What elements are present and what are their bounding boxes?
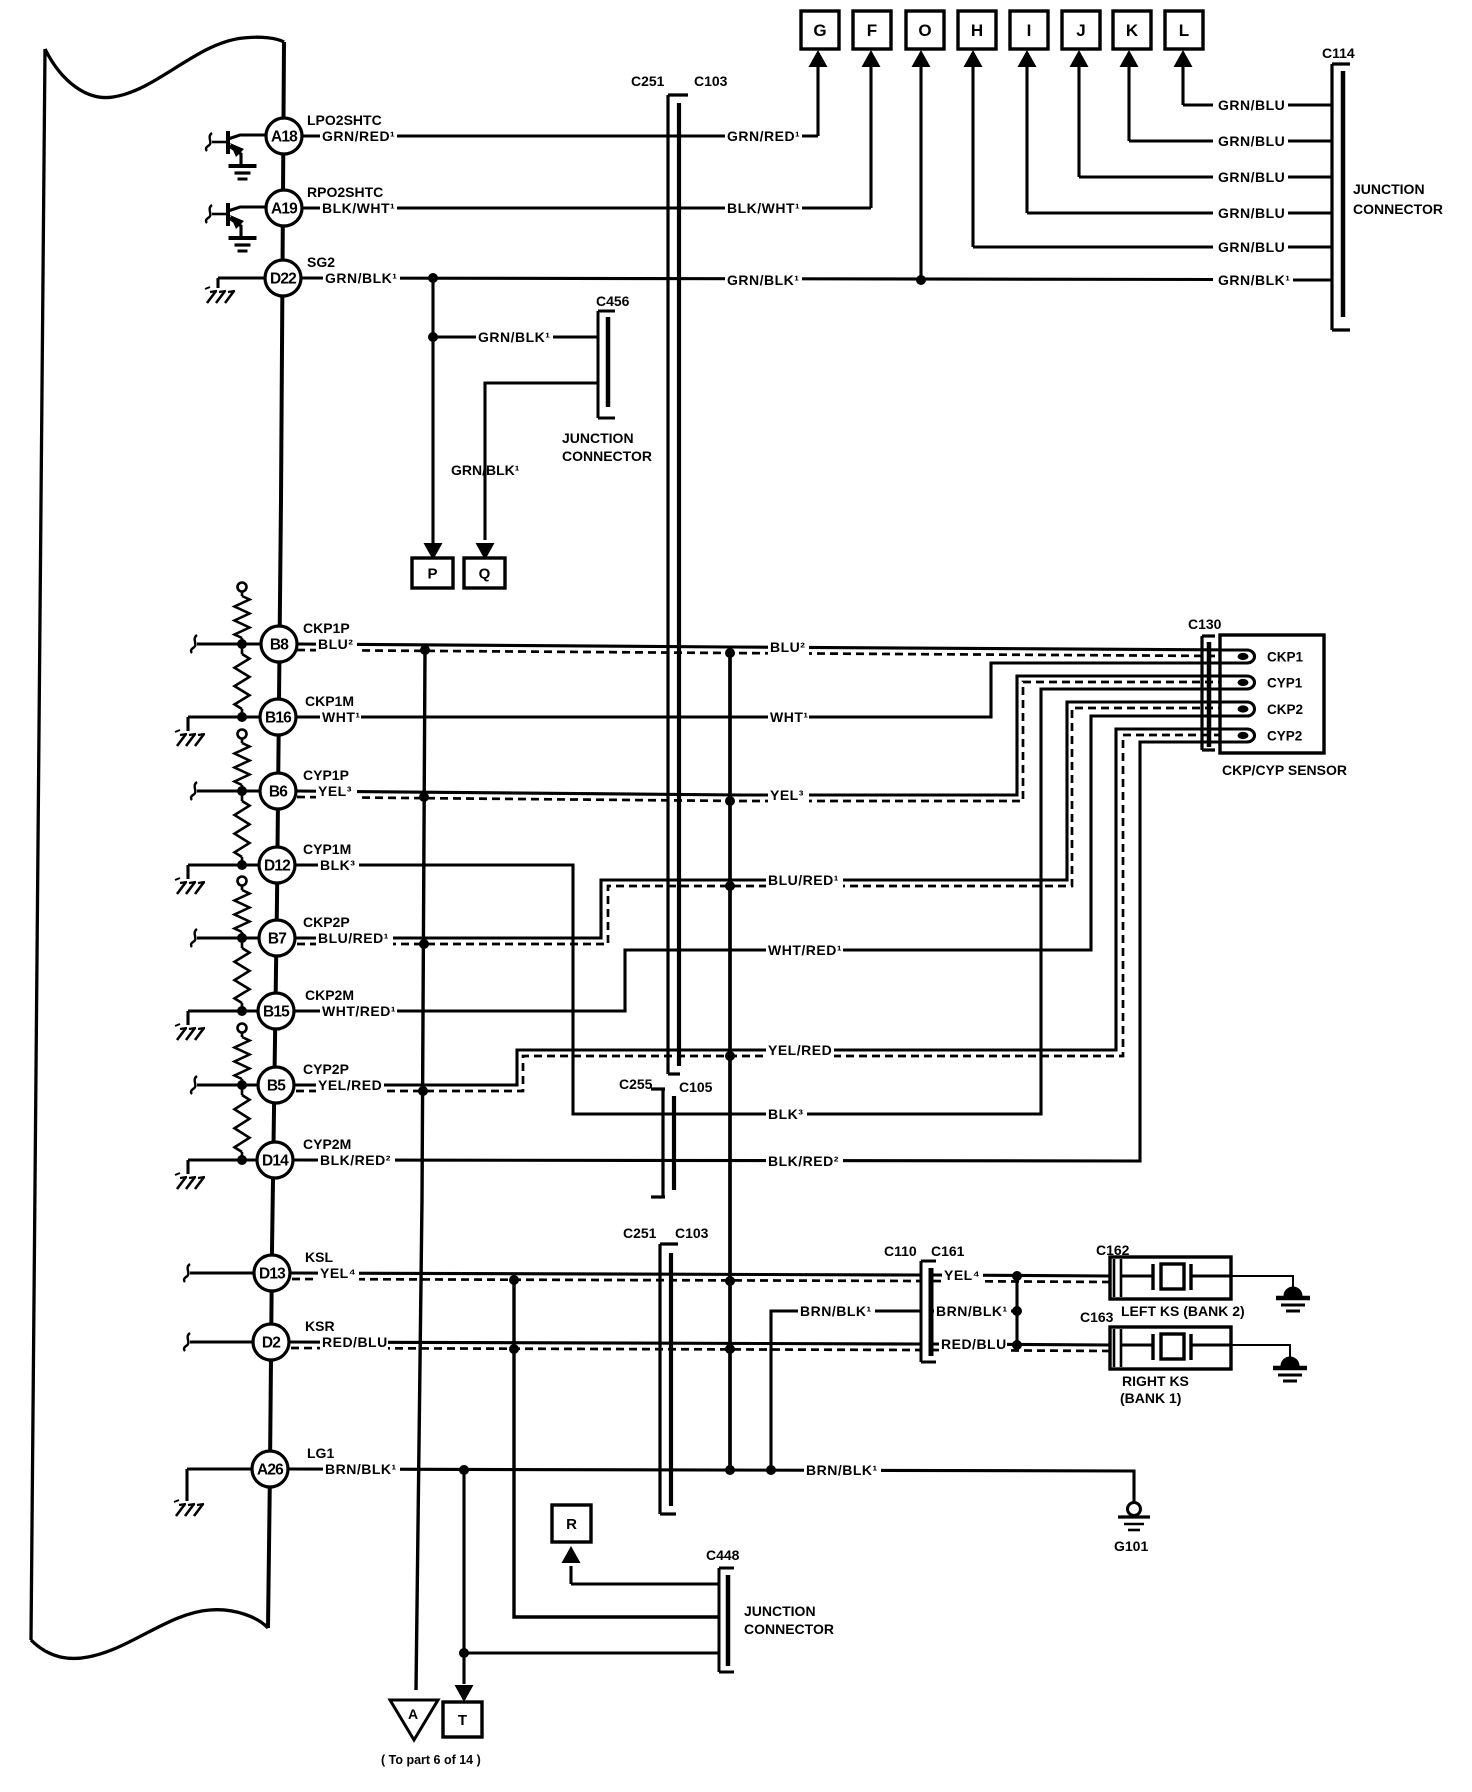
junction node shield BLU2 at left drain — [420, 645, 430, 655]
label YEL4 — [942, 1267, 983, 1283]
driver transistor at pin A19 — [206, 203, 266, 236]
svg-text:WHT/RED¹: WHT/RED¹ — [322, 1003, 396, 1019]
svg-text:CYP1M: CYP1M — [303, 841, 351, 857]
text CKP/CYP sensor — [1222, 762, 1347, 778]
svg-text:C103: C103 — [694, 73, 728, 89]
PCM pin D12 — [259, 847, 295, 883]
label BLU2 — [316, 636, 357, 652]
svg-text:CYP2M: CYP2M — [303, 1136, 351, 1152]
arrow into flag F — [862, 50, 881, 67]
label YEL4 — [318, 1265, 359, 1281]
svg-text:D2: D2 — [262, 1335, 280, 1352]
svg-text:CKP/CYP SENSOR: CKP/CYP SENSOR — [1222, 762, 1347, 778]
connector C103 lower half — [669, 1253, 673, 1506]
label BLK3 — [318, 857, 359, 873]
label C456 — [596, 293, 630, 309]
arrow into R — [562, 1546, 581, 1563]
connector flag box T — [443, 1702, 482, 1737]
junction connector C114 — [1332, 64, 1350, 330]
pull-up resistor above B6 — [235, 730, 250, 792]
junction node at resistor / D12 wire — [237, 860, 247, 870]
svg-text:BLU²: BLU² — [318, 636, 353, 652]
left knock sensor C162 — [1110, 1257, 1231, 1299]
svg-text:H: H — [971, 21, 983, 40]
svg-text:GRN/BLU: GRN/BLU — [1218, 97, 1285, 113]
label BRN/BLK1 — [323, 1461, 400, 1477]
PCM internal bus wire — [268, 42, 284, 1628]
svg-text:JUNCTION: JUNCTION — [1353, 181, 1425, 197]
wire branch LG1 to flag T — [462, 1470, 465, 1653]
arrow into Q — [476, 543, 495, 560]
sensor terminal CKP1 — [1220, 650, 1304, 665]
PCM pin B8 — [261, 626, 297, 662]
svg-text:GRN/BLK¹: GRN/BLK¹ — [478, 329, 550, 345]
svg-text:F: F — [867, 21, 877, 40]
svg-text:G101: G101 — [1114, 1538, 1148, 1554]
svg-text:GRN/BLK¹: GRN/BLK¹ — [1218, 272, 1290, 288]
shield drain wire to flag A — [416, 650, 425, 1690]
label YEL3 — [768, 787, 809, 803]
arrow into flag I — [1018, 50, 1037, 67]
junction node LG1 at T branch — [459, 1465, 469, 1475]
wire stub left of D13 — [184, 1264, 254, 1282]
riser wire to flag F — [869, 66, 872, 208]
svg-text:YEL³: YEL³ — [318, 783, 352, 799]
label RED/BLU — [939, 1336, 1007, 1352]
junction node T branch to C448 — [459, 1648, 469, 1658]
label GRN/BLK1 — [725, 272, 802, 288]
bias resistor between B8 and B16 — [235, 644, 250, 717]
label BRN/BLK1 — [934, 1303, 1011, 1319]
wire WHT/RED1 CKP2M row — [294, 716, 1247, 1011]
earth ground below transistor A19 — [229, 238, 257, 251]
labels C251 C103 upper — [631, 73, 728, 89]
PCM pin B7 — [259, 920, 295, 956]
wire BLK/RED2 CYP2M row — [293, 742, 1247, 1161]
label C448 — [706, 1547, 740, 1563]
label GRN/BLU — [1216, 97, 1285, 113]
svg-text:CYP2P: CYP2P — [303, 1061, 349, 1077]
junction connector C456 — [598, 311, 615, 418]
shield dash RED/BLU right — [933, 1350, 1110, 1351]
riser wire to flag J — [1077, 66, 1080, 177]
bias resistor between B5 and D14 — [235, 1085, 250, 1160]
junction node shield at center drain — [725, 1051, 735, 1061]
connector C251 lower half — [660, 1244, 678, 1514]
junction node shield at center drain — [725, 1276, 735, 1286]
svg-text:KSL: KSL — [305, 1249, 333, 1265]
wire R flag to junction connector C448 — [571, 1566, 719, 1584]
wire GRN/BLU K to C114 — [1129, 139, 1332, 142]
ground wire left of D14 — [188, 1160, 257, 1174]
svg-text:BLU²: BLU² — [770, 639, 805, 655]
wire GRN/BLK1 from D22 to C114 — [301, 278, 1332, 280]
labels C255 C105 — [619, 1076, 713, 1095]
svg-text:D13: D13 — [259, 1266, 286, 1283]
label BLK/RED2 — [766, 1153, 843, 1169]
wire GRN/BLU I to C114 — [1027, 211, 1332, 214]
svg-text:A26: A26 — [257, 1462, 284, 1479]
pin name label CYP1P — [303, 767, 349, 783]
wire T branch to junction connector C448 — [464, 1651, 719, 1654]
svg-text:D22: D22 — [270, 271, 296, 288]
bias resistor between B6 and D12 — [235, 791, 250, 865]
pin name label RPO2SHTC — [307, 184, 383, 200]
svg-text:B15: B15 — [263, 1004, 290, 1021]
chassis ground B15 — [175, 1024, 205, 1040]
shield dash BLU/RED1 — [297, 708, 1220, 944]
text junction connector C448 — [744, 1603, 834, 1637]
ground wire left of D12 — [188, 865, 259, 879]
labels C251 C103 lower — [623, 1225, 709, 1241]
svg-text:LPO2SHTC: LPO2SHTC — [307, 112, 382, 128]
junction node KS tie BRN/BLK1 — [1012, 1306, 1022, 1316]
ground wire left of A26 — [187, 1469, 252, 1501]
wire stub left of B8 — [191, 635, 261, 653]
ground wire left of D22 — [218, 278, 265, 288]
label C130 — [1188, 616, 1222, 632]
pin name label CKP2P — [303, 914, 350, 930]
junction node KS tie RED/BLU — [1012, 1340, 1022, 1350]
chassis ground D12 — [175, 878, 205, 894]
PCM pin B15 — [258, 993, 294, 1029]
junction node at C456 branch — [428, 332, 438, 342]
svg-text:C130: C130 — [1188, 616, 1222, 632]
wire BLU/RED1 CKP2P row — [295, 702, 1247, 938]
connector flag box I — [1010, 11, 1048, 49]
svg-text:T: T — [458, 1712, 467, 1729]
svg-text:JUNCTION: JUNCTION — [744, 1603, 816, 1619]
svg-text:CKP1M: CKP1M — [305, 693, 354, 709]
label BLU/RED1 — [316, 930, 393, 946]
svg-text:C103: C103 — [675, 1225, 709, 1241]
connector flag box P — [412, 558, 453, 588]
junction node shield at center drain — [725, 796, 735, 806]
wire YEL3 CYP1P row — [296, 676, 1247, 795]
junction node shield at center drain — [725, 1344, 735, 1354]
pull-up resistor above B8 — [235, 583, 250, 645]
wire BRN/BLK1 branch to C110 — [771, 1311, 920, 1470]
sensor terminal CYP2 — [1220, 729, 1302, 744]
PCM pin B5 — [258, 1067, 294, 1103]
wire WHT1 CKP1M row — [296, 663, 1247, 717]
svg-text:BLK/RED²: BLK/RED² — [320, 1152, 391, 1168]
connector flag box K — [1113, 11, 1151, 49]
label C114 — [1322, 45, 1355, 61]
riser wire to flag K — [1127, 66, 1130, 141]
svg-text:C251: C251 — [623, 1225, 657, 1241]
label WHT1 — [768, 709, 809, 725]
pull-up resistor above B7 — [235, 877, 250, 939]
svg-text:K: K — [1126, 21, 1139, 40]
svg-text:GRN/RED¹: GRN/RED¹ — [322, 128, 395, 144]
svg-text:CKP1: CKP1 — [1267, 650, 1304, 665]
chassis ground A26 — [174, 1500, 204, 1516]
svg-text:(BANK 1): (BANK 1) — [1120, 1390, 1181, 1406]
pin name label CKP2M — [305, 987, 354, 1003]
svg-text:WHT/RED¹: WHT/RED¹ — [768, 942, 842, 958]
svg-text:LG1: LG1 — [307, 1445, 334, 1461]
junction node at resistor / B15 wire — [237, 1006, 247, 1016]
svg-text:CONNECTOR: CONNECTOR — [744, 1621, 834, 1637]
junction node LG1 at C110 branch — [766, 1465, 776, 1475]
svg-text:I: I — [1027, 21, 1032, 40]
svg-text:YEL⁴: YEL⁴ — [320, 1265, 356, 1281]
svg-text:C448: C448 — [706, 1547, 740, 1563]
svg-text:JUNCTION: JUNCTION — [562, 430, 634, 446]
arrow into flag G — [809, 50, 828, 67]
text LEFT KS BANK 2 — [1121, 1303, 1245, 1319]
riser wire to flag O — [919, 66, 922, 280]
wire BLK3 CYP1M row — [295, 689, 1247, 1114]
CKP/CYP sensor body — [1220, 635, 1324, 753]
junction connector C448 — [719, 1568, 734, 1672]
junction node at resistor / B16 wire — [237, 712, 247, 722]
svg-text:YEL³: YEL³ — [770, 787, 804, 803]
svg-text:G: G — [813, 21, 826, 40]
svg-text:J: J — [1076, 21, 1085, 40]
label C163 — [1080, 1309, 1114, 1325]
pull-up resistor above B5 — [235, 1024, 250, 1086]
svg-text:D14: D14 — [262, 1153, 289, 1170]
svg-text:GRN/BLK¹: GRN/BLK¹ — [727, 272, 799, 288]
junction node GRN/BLK1 at O riser — [916, 275, 926, 285]
svg-text:BRN/BLK¹: BRN/BLK¹ — [325, 1461, 397, 1477]
svg-text:GRN/RED¹: GRN/RED¹ — [727, 128, 800, 144]
svg-text:B5: B5 — [267, 1078, 286, 1095]
text junction connector C114 — [1353, 181, 1443, 217]
wire GRN/BLU H to C114 — [973, 245, 1332, 248]
svg-text:CYP1: CYP1 — [1267, 676, 1303, 691]
svg-text:BLK/RED²: BLK/RED² — [768, 1153, 839, 1169]
svg-text:BLU/RED¹: BLU/RED¹ — [318, 930, 389, 946]
connector C251 upper half — [668, 95, 688, 1074]
riser wire to flag H — [971, 66, 974, 247]
svg-text:O: O — [918, 21, 931, 40]
svg-text:GRN/BLU: GRN/BLU — [1218, 169, 1285, 185]
label G101 — [1114, 1538, 1148, 1554]
svg-text:C255: C255 — [619, 1076, 653, 1092]
PCM pin D13 — [254, 1255, 290, 1291]
junction node at resistor / B6 wire — [237, 786, 247, 796]
svg-text:BLK/WHT¹: BLK/WHT¹ — [322, 200, 395, 216]
PCM pin A19 — [266, 190, 302, 226]
riser wire to flag L — [1181, 66, 1184, 105]
connector flag box O — [906, 11, 944, 49]
label BRN/BLK1 — [798, 1303, 875, 1319]
connector C103 upper half — [677, 103, 681, 1066]
arrow into flag J — [1070, 50, 1089, 67]
svg-text:C163: C163 — [1080, 1309, 1114, 1325]
svg-text:BLK³: BLK³ — [320, 857, 355, 873]
svg-text:C456: C456 — [596, 293, 630, 309]
wire YEL/RED CYP2P row — [294, 729, 1247, 1085]
wire YEL4 C161 to left KS — [933, 1275, 1110, 1276]
label BLK/RED2 — [318, 1152, 395, 1168]
junction node KSL shield at drain — [509, 1275, 519, 1285]
label BLU/RED1 — [766, 872, 843, 888]
connector flag box H — [958, 11, 996, 49]
junction node KS tie YEL4 — [1012, 1271, 1022, 1281]
label GRN/BLK1 — [476, 329, 553, 345]
arrow into P — [424, 540, 443, 560]
svg-text:BRN/BLK¹: BRN/BLK¹ — [806, 1462, 878, 1478]
label WHT/RED1 — [766, 942, 843, 958]
svg-text:GRN/BLU: GRN/BLU — [1218, 133, 1285, 149]
PCM pin D2 — [253, 1324, 289, 1360]
label BLK/WHT1 — [725, 200, 802, 216]
svg-text:C110: C110 — [884, 1243, 917, 1259]
pin name label CKP1P — [303, 620, 350, 636]
svg-text:GRN/BLU: GRN/BLU — [1218, 239, 1285, 255]
svg-text:BRN/BLK¹: BRN/BLK¹ — [936, 1303, 1008, 1319]
svg-text:C251: C251 — [631, 73, 665, 89]
text RIGHT KS BANK 1 — [1120, 1373, 1189, 1406]
sensor terminal CKP2 — [1220, 702, 1303, 717]
pin name label LPO2SHTC — [307, 112, 382, 128]
wire BRN/BLK1 C161 stub — [933, 1309, 1017, 1312]
label GRN/BLU — [1216, 169, 1285, 185]
pin name label SG2 — [307, 254, 335, 270]
svg-text:KSR: KSR — [305, 1318, 335, 1334]
shield dash YEL3 — [297, 682, 1220, 801]
label RED/BLU — [320, 1334, 388, 1350]
PCM module outline top wavy edge — [45, 37, 284, 97]
junction node GRN/BLK1 branch at C456 tap — [428, 273, 438, 283]
svg-text:( To part 6 of 14 ): ( To part 6 of 14 ) — [381, 1753, 481, 1767]
junction node shield BLU/RED1 at left drain — [419, 939, 429, 949]
svg-text:YEL⁴: YEL⁴ — [944, 1267, 980, 1283]
connector flag box L — [1165, 11, 1203, 49]
wire BLK/WHT1 from A19 to C103 — [302, 206, 871, 209]
svg-text:SG2: SG2 — [307, 254, 335, 270]
svg-text:C162: C162 — [1096, 1242, 1130, 1258]
connector C130 — [1202, 636, 1215, 750]
wire right KS to ground — [1231, 1345, 1290, 1358]
wire stub left of B7 — [191, 929, 259, 947]
text to part 6 of 14 — [381, 1753, 481, 1767]
svg-text:CYP2: CYP2 — [1267, 729, 1302, 744]
wire GRN/BLU L to C114 — [1183, 103, 1332, 106]
PCM module outline bottom wavy edge — [31, 1610, 268, 1659]
ground wire left of B15 — [188, 1011, 258, 1025]
wire GRN/BLK1 drop to C456 and P — [431, 278, 434, 540]
label YEL/RED — [766, 1042, 834, 1058]
pin name label KSL — [305, 1249, 333, 1265]
bias resistor between B7 and B15 — [235, 938, 250, 1011]
svg-text:C161: C161 — [931, 1243, 965, 1259]
svg-text:CONNECTOR: CONNECTOR — [562, 448, 652, 464]
connector flag box J — [1062, 11, 1100, 49]
sensor terminal CYP1 — [1220, 676, 1303, 691]
PCM module outline left edge — [31, 49, 45, 1640]
svg-text:A18: A18 — [271, 129, 298, 146]
shield dash BLU2 — [297, 650, 1220, 656]
svg-text:RIGHT KS: RIGHT KS — [1122, 1373, 1189, 1389]
svg-text:A: A — [408, 1706, 418, 1722]
pin name label CYP1M — [303, 841, 351, 857]
label YEL/RED — [316, 1077, 384, 1093]
connector C255 — [651, 1089, 665, 1197]
connector flag box F — [853, 11, 891, 49]
knock sensor shield tie wire — [1015, 1276, 1018, 1345]
label BRN/BLK1 — [804, 1462, 881, 1478]
PCM pin A18 — [266, 118, 302, 154]
svg-text:BLK³: BLK³ — [768, 1106, 803, 1122]
svg-text:C105: C105 — [679, 1079, 713, 1095]
shield dash YEL4 — [292, 1279, 920, 1281]
svg-text:P: P — [427, 565, 437, 582]
label GRN/BLU — [1216, 133, 1285, 149]
arrow into flag H — [964, 50, 983, 67]
PCM pin D22 — [265, 260, 301, 296]
svg-text:L: L — [1179, 21, 1189, 40]
junction node center drain at LG1 row — [725, 1465, 735, 1475]
svg-text:YEL/RED: YEL/RED — [768, 1042, 832, 1058]
svg-text:RED/BLU: RED/BLU — [322, 1334, 388, 1350]
svg-text:WHT¹: WHT¹ — [770, 709, 809, 725]
svg-text:B6: B6 — [269, 784, 288, 801]
svg-text:WHT¹: WHT¹ — [322, 709, 361, 725]
flag A to part 6 of 14 — [390, 1700, 438, 1740]
pin name label CKP1M — [305, 693, 354, 709]
label BLK3 — [766, 1106, 807, 1122]
svg-text:BRN/BLK¹: BRN/BLK¹ — [800, 1303, 872, 1319]
junction node shield at center drain — [725, 881, 735, 891]
junction node at resistor / D14 wire — [237, 1155, 247, 1165]
connector flag box Q — [464, 558, 505, 588]
junction node shield YEL3 at left drain — [419, 792, 429, 802]
label GRN/RED1 — [320, 128, 397, 144]
shield dash YEL/RED — [296, 735, 1220, 1091]
svg-text:BLU/RED¹: BLU/RED¹ — [768, 872, 839, 888]
svg-text:A19: A19 — [271, 201, 298, 218]
svg-text:CKP2: CKP2 — [1267, 702, 1303, 717]
PCM pin B16 — [260, 699, 296, 735]
wire GRN/BLU J to C114 — [1079, 175, 1332, 178]
junction node at resistor / B7 wire — [237, 933, 247, 943]
label WHT1 — [320, 709, 361, 725]
svg-text:CKP2P: CKP2P — [303, 914, 350, 930]
svg-text:CKP2M: CKP2M — [305, 987, 354, 1003]
svg-text:R: R — [566, 1516, 577, 1533]
ground right KS — [1273, 1357, 1307, 1381]
junction node at resistor / B8 wire — [237, 639, 247, 649]
wire GRN/RED1 from A18 to C103 — [302, 134, 818, 137]
connector flag box G — [801, 11, 839, 49]
svg-text:LEFT KS (BANK 2): LEFT KS (BANK 2) — [1121, 1303, 1245, 1319]
connector flag box R — [552, 1505, 591, 1542]
text junction connector C456 — [562, 430, 652, 464]
label WHT/RED1 — [320, 1003, 397, 1019]
riser wire to flag I — [1025, 66, 1028, 213]
ground left KS — [1276, 1287, 1310, 1311]
ground wire left of B16 — [188, 717, 260, 731]
wire stub left of B6 — [191, 782, 260, 800]
svg-text:CONNECTOR: CONNECTOR — [1353, 201, 1443, 217]
svg-text:RED/BLU: RED/BLU — [941, 1336, 1007, 1352]
svg-text:C114: C114 — [1322, 45, 1355, 61]
label YEL3 — [316, 783, 357, 799]
label GRN/BLU — [1216, 239, 1285, 255]
shield drain wire center — [728, 653, 732, 1470]
label GRN/BLK1 — [323, 270, 400, 286]
wire YEL4 KSL row — [290, 1273, 920, 1275]
driver transistor at pin A18 — [206, 131, 266, 164]
svg-text:GRN/BLK¹: GRN/BLK¹ — [325, 270, 397, 286]
chassis ground B16 — [175, 730, 205, 746]
junction node shield YEL/RED at left drain — [418, 1086, 428, 1096]
